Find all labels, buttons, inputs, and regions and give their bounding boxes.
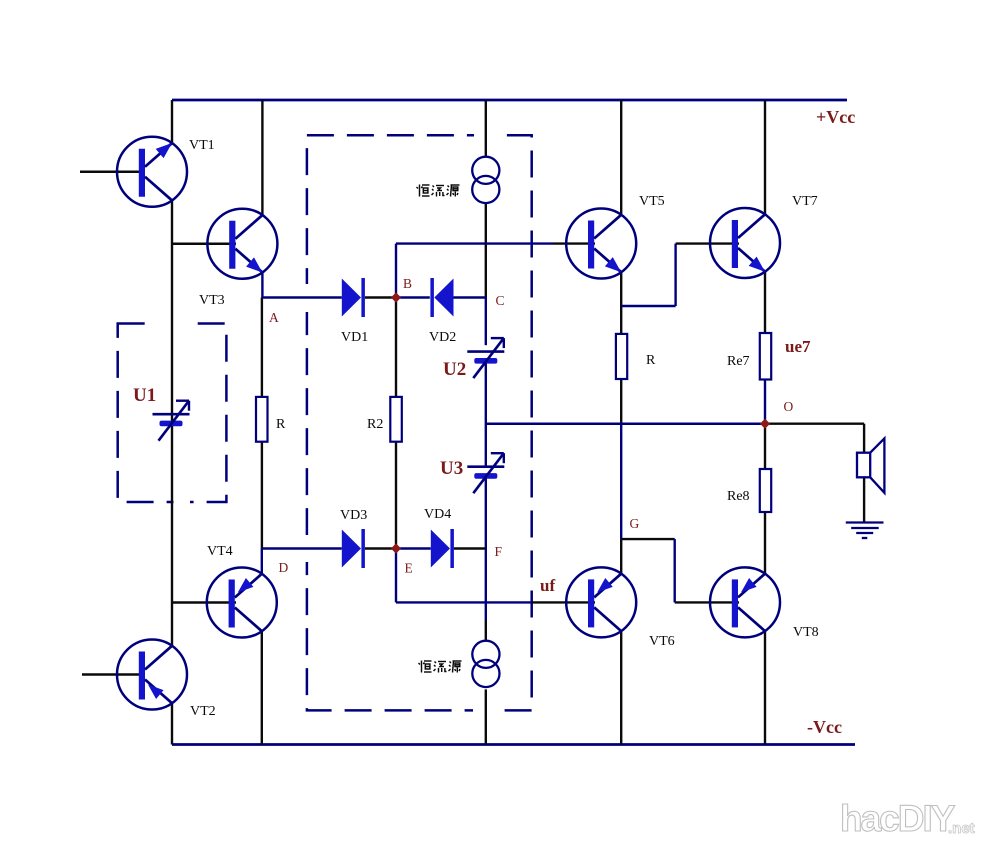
svg-text:D: D <box>279 560 289 575</box>
svg-text:R: R <box>646 353 656 368</box>
svg-text:B: B <box>403 276 412 291</box>
svg-text:U2: U2 <box>443 359 466 380</box>
svg-text:VT3: VT3 <box>199 293 225 308</box>
svg-text:uf: uf <box>540 576 555 595</box>
svg-text:VT1: VT1 <box>189 138 215 153</box>
svg-text:VD4: VD4 <box>424 507 451 522</box>
svg-text:VD3: VD3 <box>340 508 367 523</box>
svg-text:F: F <box>495 544 503 559</box>
svg-text:VT8: VT8 <box>793 625 819 640</box>
svg-text:VT6: VT6 <box>649 634 675 649</box>
svg-text:VT2: VT2 <box>190 704 216 719</box>
svg-text:VT7: VT7 <box>792 194 818 209</box>
svg-text:C: C <box>496 293 505 308</box>
svg-text:-Vcc: -Vcc <box>807 717 842 737</box>
svg-text:VT4: VT4 <box>207 544 233 559</box>
svg-text:E: E <box>405 561 413 576</box>
svg-text:Re7: Re7 <box>727 354 750 369</box>
svg-text:O: O <box>784 399 794 414</box>
svg-text:G: G <box>630 516 640 531</box>
svg-text:R: R <box>276 417 286 432</box>
svg-text:.net: .net <box>948 820 975 837</box>
svg-text:VT5: VT5 <box>639 194 665 209</box>
svg-text:VD1: VD1 <box>341 330 368 345</box>
svg-text:U3: U3 <box>440 458 463 479</box>
svg-text:R2: R2 <box>367 417 383 432</box>
svg-text:ue7: ue7 <box>785 337 811 356</box>
svg-text:Re8: Re8 <box>727 489 750 504</box>
svg-text:U1: U1 <box>133 385 156 406</box>
svg-text:VD2: VD2 <box>429 330 456 345</box>
svg-text:hacDIY: hacDIY <box>840 798 956 839</box>
svg-text:A: A <box>269 310 279 325</box>
svg-text:+Vcc: +Vcc <box>816 107 855 127</box>
